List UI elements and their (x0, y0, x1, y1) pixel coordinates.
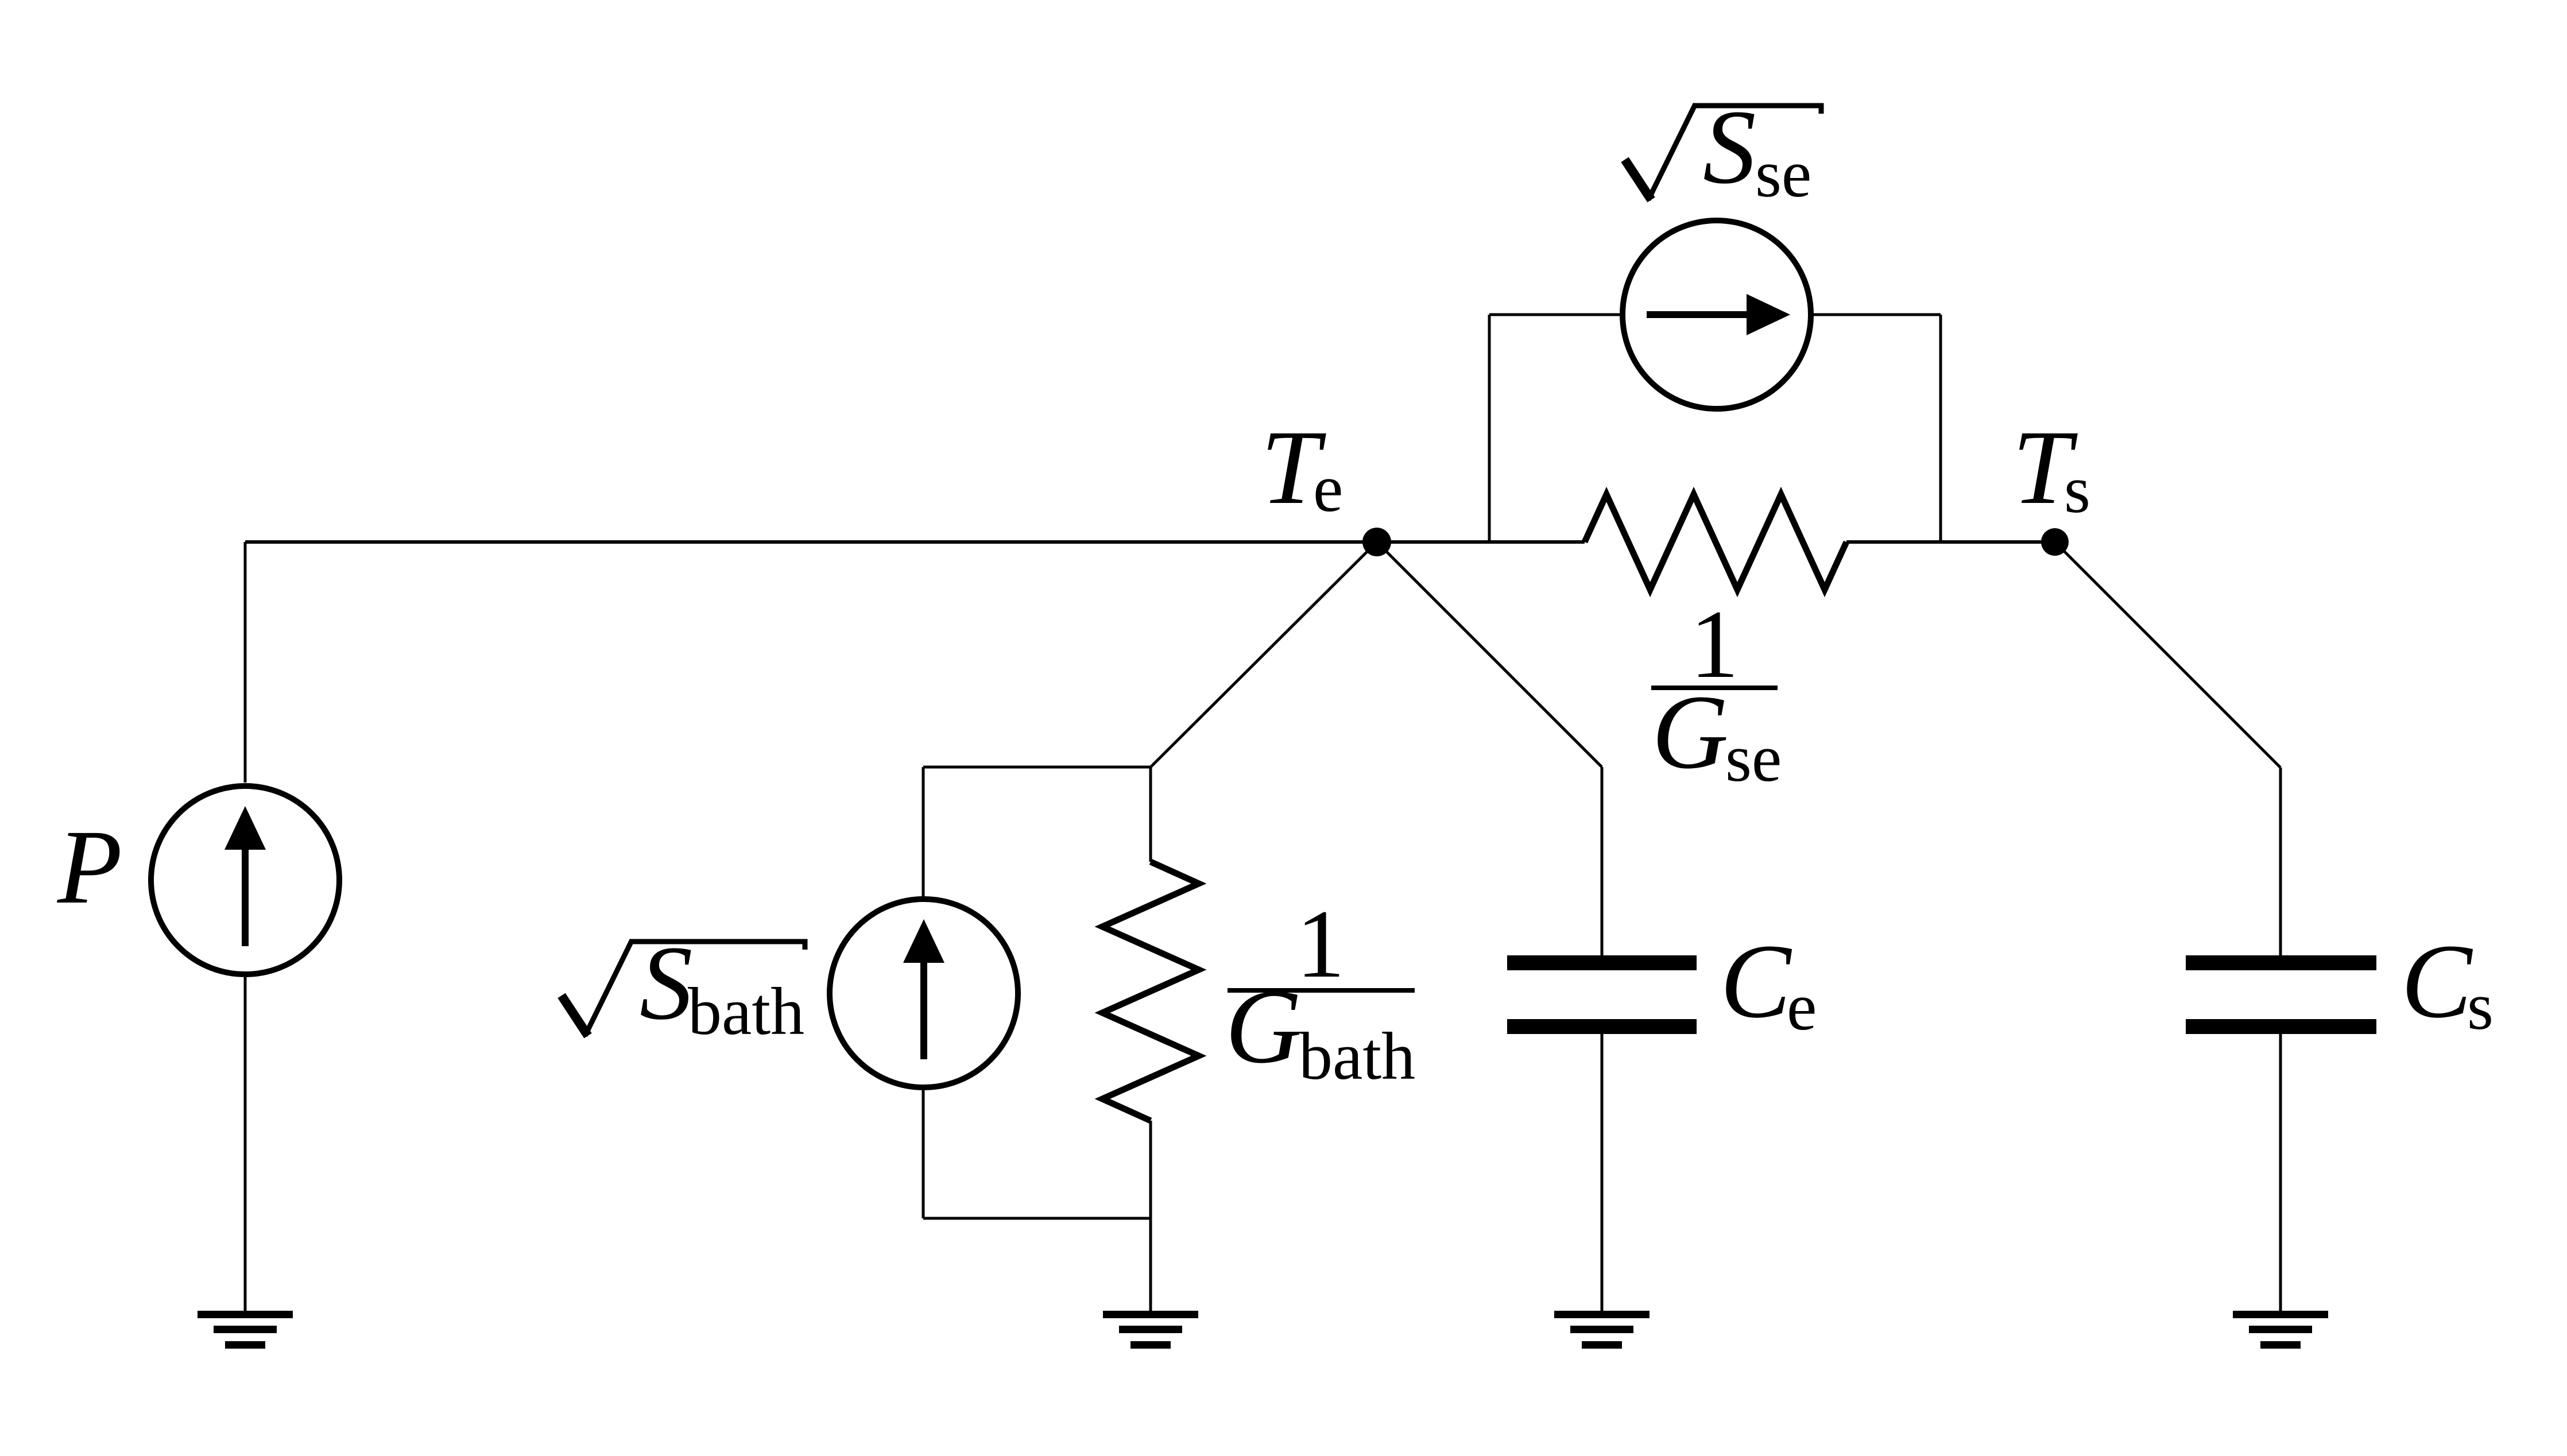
arrow of source P (242, 844, 249, 946)
svg-text:C: C (2401, 923, 2473, 1040)
wire main top rail right of resistor (1846, 540, 2055, 544)
svg-text:se: se (1725, 721, 1782, 796)
ground below bath (1103, 1311, 1198, 1349)
node Ts dot (2041, 528, 2069, 556)
svg-text:s: s (2064, 452, 2090, 527)
wire bath right lower vertical (1149, 1121, 1152, 1311)
resistor 1/Gse (1585, 494, 1846, 590)
wire Cs top lead (2279, 768, 2282, 955)
wire bath left lower vertical (922, 1090, 925, 1218)
wire bath top horizontal (923, 766, 1151, 769)
svg-text:G: G (1652, 673, 1729, 791)
capacitor Cs top plate (2186, 955, 2376, 970)
svg-text:e: e (1787, 969, 1817, 1044)
wire Ce top lead (1601, 767, 1604, 955)
wire Cs bottom lead (2279, 1034, 2282, 1311)
svg-text:S: S (640, 924, 693, 1042)
wire bath right upper vertical (1149, 767, 1152, 862)
svg-text:s: s (2467, 969, 2494, 1044)
ground below P (198, 1311, 293, 1349)
svg-text:P: P (57, 808, 122, 926)
label 1/Gse (1651, 590, 1782, 796)
wire P top lead (244, 542, 247, 783)
wire bath bottom horizontal (923, 1217, 1151, 1220)
wire diagonal Ts to Cs (2055, 542, 2281, 768)
capacitor Ce bottom plate (1507, 1019, 1697, 1034)
svg-text:bath: bath (1299, 1019, 1415, 1094)
current source sqrt(Sse) loop (1489, 220, 1941, 542)
svg-text:1: 1 (1296, 890, 1345, 998)
capacitor Cs branch (2055, 542, 2376, 1311)
svg-text:C: C (1720, 923, 1792, 1040)
wire loop left vertical (1488, 315, 1491, 542)
wire Ce bottom lead (1601, 1034, 1604, 1311)
capacitor Ce top plate (1507, 955, 1697, 970)
wire bath left upper vertical (922, 767, 925, 899)
svg-text:S: S (1703, 88, 1756, 206)
svg-text:e: e (1313, 451, 1343, 526)
capacitor Cs bottom plate (2186, 1019, 2376, 1034)
ground below Ce (1554, 1311, 1650, 1349)
circle of source Sbath (830, 899, 1018, 1087)
wire diagonal Te to Ce (1377, 542, 1602, 767)
circle of source P (151, 786, 339, 974)
label 1/Gbath (1225, 890, 1415, 1094)
wire P bottom lead (244, 977, 247, 1311)
ground below Cs (2233, 1311, 2328, 1349)
wire loop top left (1489, 313, 1623, 316)
current source P (151, 542, 339, 1311)
wire loop right vertical (1939, 315, 1942, 542)
resistor 1/Gbath vertical zigzag (1102, 862, 1199, 1121)
wire main top rail left of resistor (245, 540, 1585, 544)
capacitor Ce branch (1377, 542, 1697, 1311)
svg-text:se: se (1755, 136, 1811, 211)
svg-text:bath: bath (688, 974, 804, 1049)
svg-text:G: G (1225, 968, 1302, 1086)
circle of source Sse (1623, 220, 1811, 409)
node Te dot (1362, 528, 1391, 556)
wire loop top right (1811, 313, 1941, 316)
label sqrt(Sse) (1625, 88, 1821, 211)
arrow of source Sbath (920, 957, 927, 1059)
arrow of source Sse (1647, 311, 1751, 318)
wire diagonal Te to bath top (1151, 542, 1377, 767)
label sqrt(Sbath) (562, 924, 805, 1049)
bath block (830, 542, 1377, 1311)
